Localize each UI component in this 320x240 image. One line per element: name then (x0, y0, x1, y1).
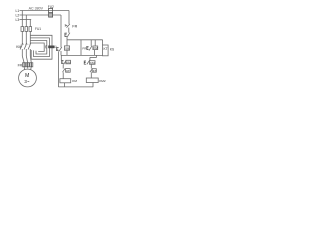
svg-text:KM: KM (93, 46, 98, 50)
svg-text:AC 380V: AC 380V (29, 6, 44, 10)
svg-text:FU2: FU2 (48, 5, 54, 9)
svg-text:FU1: FU1 (35, 27, 41, 31)
svg-text:3~: 3~ (24, 79, 29, 84)
svg-text:KM: KM (66, 60, 71, 64)
svg-text:KM: KM (16, 45, 21, 49)
svg-text:KT: KT (66, 69, 70, 73)
svg-text:FR: FR (18, 63, 23, 67)
svg-text:L2: L2 (16, 14, 20, 18)
svg-text:KM: KM (90, 61, 95, 65)
svg-text:KM: KM (72, 79, 77, 83)
svg-text:KT: KT (104, 47, 108, 51)
svg-text:SB: SB (65, 46, 69, 50)
svg-text:KT: KT (93, 69, 97, 73)
svg-text:KM2: KM2 (99, 79, 106, 83)
svg-text:L3: L3 (16, 18, 20, 22)
svg-text:FR: FR (72, 24, 77, 28)
svg-text:KS: KS (110, 48, 114, 52)
svg-text:L1: L1 (16, 9, 20, 13)
